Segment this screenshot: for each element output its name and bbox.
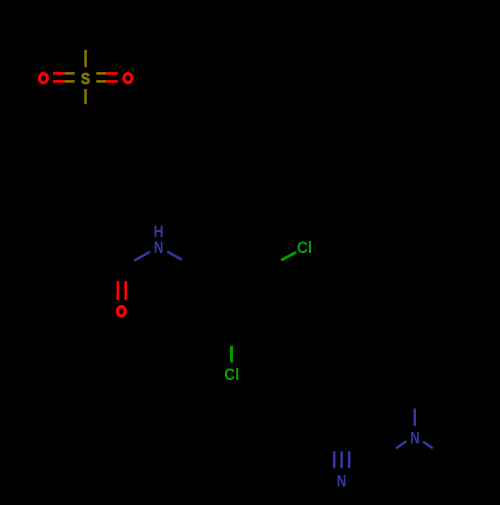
carbonyl atom label O [117,307,125,316]
bond C-Cl bottom (green half) [230,346,233,363]
svg-text:Cl: Cl [297,238,312,257]
sulfonyl S1: S=O left double bond (olive halves) [65,73,75,81]
svg-text:N: N [154,238,164,257]
sulfonyl S1: S=O right double bond (red halves) [106,73,118,81]
bond N-C(=O) (blue half) [134,252,150,261]
atom label O (right of S) [124,74,132,83]
svg-text:S: S [81,71,90,88]
bond N-C ring (blue half, down-left) [396,441,407,448]
svg-text:N: N [337,471,347,490]
bond S-C aryl (olive half below S) [84,89,87,104]
sulfonyl S1: S=O right double bond (olive halves) [96,73,106,81]
svg-text:Cl: Cl [224,365,239,384]
bond S-CH3 (olive half above S) [84,50,87,67]
bond N-C aryl (blue half) [167,252,182,260]
sulfonyl S1: S=O left double bond (red halves) [53,73,65,81]
bond N-CH3 (blue half, down-right) [423,442,433,449]
bond C-Cl top right (green half) [281,252,296,260]
carbonyl C=O double bond (red halves) [118,281,126,300]
nitrile C#N triple bond (blue halves) [334,451,349,468]
bond N-CH3 up (blue half) [414,409,417,427]
svg-text:N: N [410,429,420,448]
atom label O (left of S) [39,74,47,83]
